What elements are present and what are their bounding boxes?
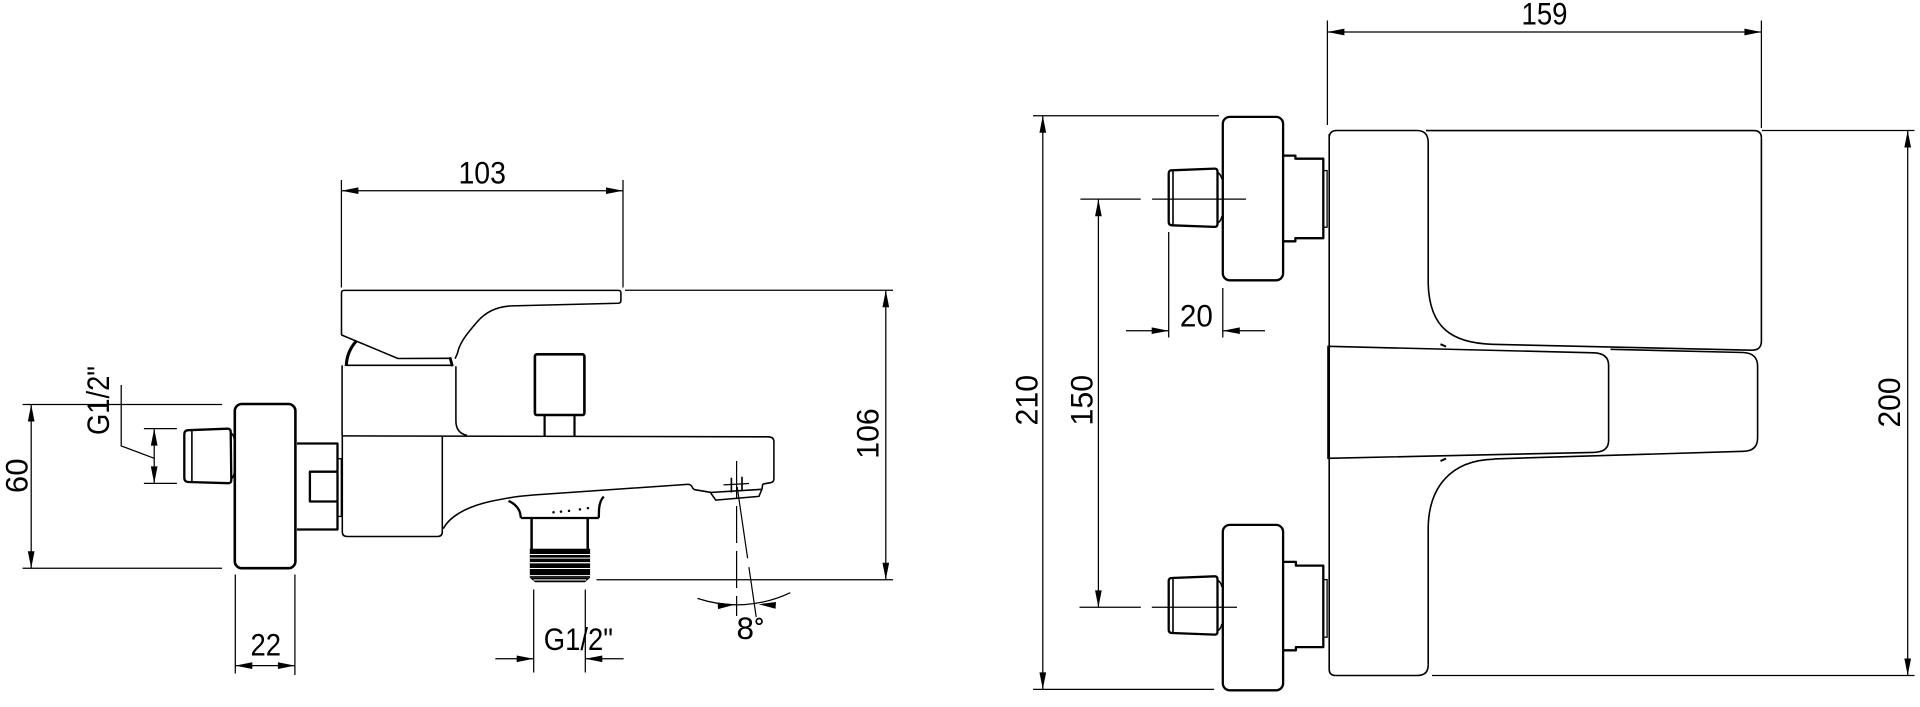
wall flange [235, 404, 296, 568]
svg-text:210: 210 [1008, 375, 1044, 426]
top hex relief line [1172, 170, 1174, 225]
top nut [1283, 156, 1323, 242]
angular dimension arc [698, 593, 791, 605]
body bottom edge [1336, 665, 1429, 676]
nut inner square [310, 472, 338, 502]
aerator joint line [710, 489, 762, 492]
outlet G1/2 extension lines [534, 590, 586, 673]
G1/2 label leader [121, 385, 154, 458]
svg-text:159: 159 [1522, 0, 1568, 32]
dimension 159 extension lines [1327, 21, 1761, 129]
bottom nut [1283, 562, 1323, 650]
dimension 106 line [885, 290, 887, 580]
outlet thread block [530, 549, 590, 578]
thread connector relief line [191, 430, 193, 482]
shower outlet cylinder sides [532, 518, 588, 549]
cartridge housing top edge [347, 364, 453, 366]
lever pivot thick tick [450, 357, 453, 366]
bottom washer [1323, 580, 1327, 638]
dimension 20 extension lines [1169, 232, 1223, 338]
body left edge [1329, 134, 1335, 676]
dimension 159 line [1327, 31, 1761, 33]
dimension 103 extension lines [341, 180, 623, 288]
svg-text:200: 200 [1871, 378, 1907, 428]
shower outlet collar right fillet [599, 497, 604, 518]
thread bottom chamfer [530, 578, 590, 583]
outlet G1/2 dimension lines [495, 658, 623, 660]
aerator tick lines [731, 477, 742, 493]
cartridge dome arc [346, 341, 356, 366]
shower outlet collar left fillet [509, 501, 521, 518]
dimension 200 extension lines [1432, 131, 1915, 676]
mounting nut [297, 444, 338, 530]
top hex chamfer hooks [1218, 172, 1222, 223]
body top edge right part [1426, 131, 1761, 139]
dimension 60 extension lines [23, 405, 222, 569]
spray direction line 8 deg [737, 487, 756, 617]
top hex connector [1169, 169, 1218, 227]
dimension 22 extension lines [235, 575, 295, 676]
body neck curve lower [1428, 459, 1494, 665]
cartridge housing left edge [341, 365, 343, 436]
thread diameter extension lines [144, 429, 177, 484]
dimension 22 line [235, 665, 295, 667]
dimension 210 line [1042, 116, 1044, 690]
bottom inlet centerline [1080, 606, 1238, 608]
body top line [342, 436, 774, 484]
diverter knob [535, 354, 585, 415]
svg-text:60: 60 [0, 459, 35, 494]
handle back plate [1494, 349, 1758, 459]
svg-text:G1/2": G1/2" [80, 366, 116, 435]
bottom escutcheon [1223, 525, 1283, 690]
dimension 150 line [1097, 199, 1099, 607]
top escutcheon [1223, 117, 1283, 280]
lever underside diagonal [341, 335, 449, 359]
lever handle side profile [342, 290, 621, 358]
G1/2 thread connector [184, 429, 231, 484]
top inlet centerline [1080, 198, 1246, 200]
dimension 210 extension lines [1033, 116, 1219, 690]
dimension 200 line [1907, 131, 1909, 676]
svg-text:103: 103 [458, 155, 506, 191]
spout underside chin curve and outlet skirt [443, 484, 763, 529]
aerator seat hidden line [724, 484, 750, 485]
body block [342, 436, 442, 537]
lever front shape [1328, 346, 1609, 458]
shower outlet shoulder line [521, 517, 599, 519]
dimension 103 line [341, 190, 623, 192]
LEFT VIEW [0, 155, 893, 676]
svg-text:150: 150 [1064, 375, 1100, 426]
top washer [1323, 171, 1327, 228]
dimension 20 lines [1126, 330, 1265, 332]
handle neck curve upper [1418, 131, 1492, 345]
dimension 106 extension lines [597, 290, 894, 580]
dimension 60 line [30, 405, 32, 569]
svg-text:8: 8 [737, 610, 755, 646]
body top edge [1329, 131, 1417, 139]
cartridge housing right edge with fillet [456, 366, 467, 435]
thread diameter dimension line [153, 429, 155, 484]
body right edge of handle [1751, 138, 1761, 350]
svg-text:20: 20 [1180, 297, 1213, 333]
svg-text:106: 106 [850, 408, 886, 459]
junction tick lower [1441, 459, 1447, 461]
spray centerline [736, 461, 738, 616]
bottom hex chamfer hooks [1218, 580, 1222, 631]
junction tick upper [1441, 344, 1447, 346]
handle bottom edge sloping [1492, 344, 1751, 350]
RIGHT VIEW [1008, 0, 1914, 690]
thread connector chamfer hooks [231, 433, 235, 480]
bottom hex connector [1169, 576, 1218, 634]
svg-text:22: 22 [251, 627, 282, 663]
spout drain dots [552, 507, 589, 514]
svg-text:G1/2": G1/2" [544, 621, 613, 657]
washer between nut and body [338, 459, 342, 517]
bottom hex relief line [1172, 578, 1174, 633]
diverter knob stem [545, 415, 575, 436]
